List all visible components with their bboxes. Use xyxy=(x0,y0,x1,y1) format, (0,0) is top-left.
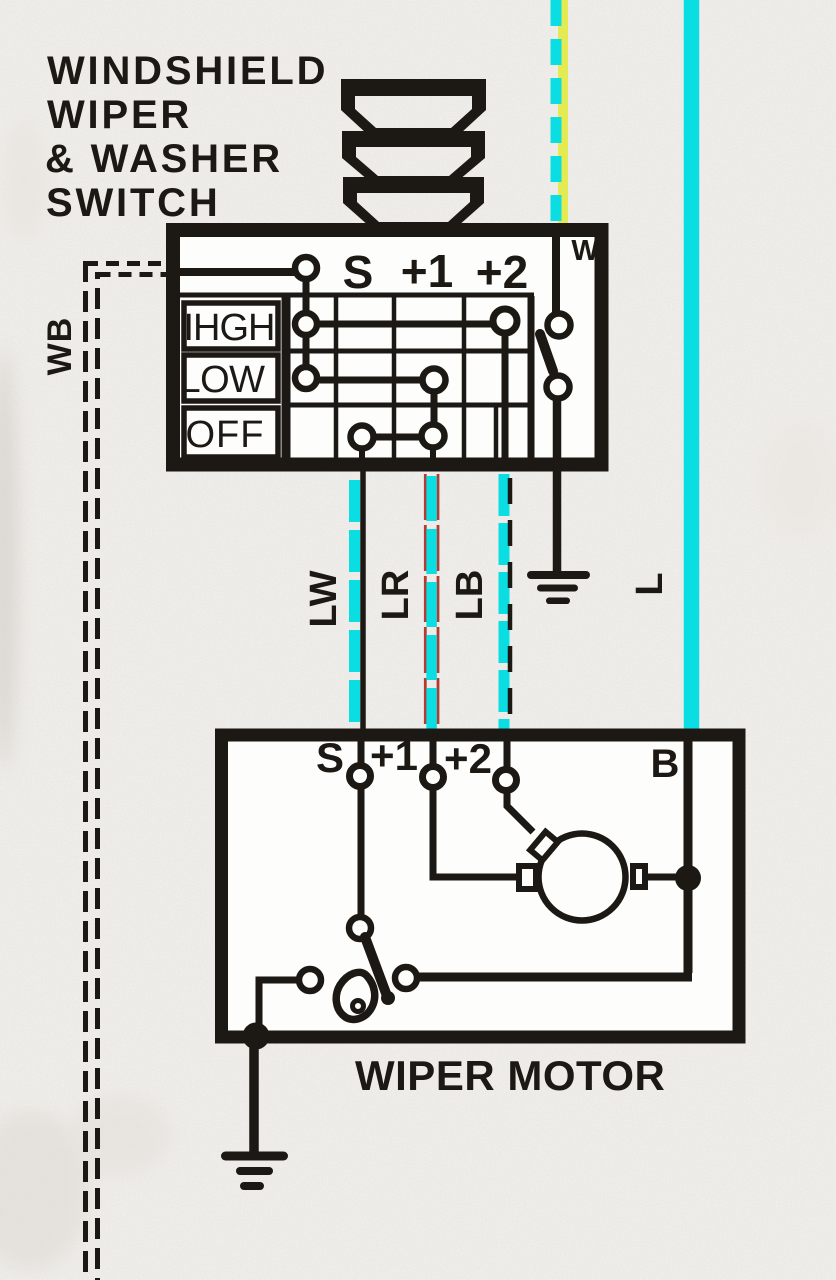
terminal parking earth contact xyxy=(299,969,321,991)
wire LR cyan dashes xyxy=(426,476,437,731)
grid row divider LOW/OFF xyxy=(285,403,534,408)
svg-text:LOW: LOW xyxy=(179,359,265,401)
connector C1 stack shell 1 xyxy=(341,79,486,133)
svg-text:+1: +1 xyxy=(401,245,453,297)
svg-text:+2: +2 xyxy=(444,735,492,782)
wire +1 column down xyxy=(431,391,438,424)
wire right brush to junction xyxy=(647,874,684,881)
terminal LOW +1 xyxy=(423,369,446,392)
svg-text:+2: +2 xyxy=(476,246,528,298)
wire S switch to motor (black) xyxy=(360,458,366,763)
wire LW cyan dashes xyxy=(349,480,360,731)
title text WINDSHIELD WIPER & WASHER SWITCH xyxy=(45,49,328,225)
wire OFF +1 stub down xyxy=(430,447,436,460)
junction dot B/motor xyxy=(675,865,701,891)
grid right vertical xyxy=(528,296,535,458)
svg-text:+1: +1 xyxy=(370,732,418,779)
wire LB cyan dashes xyxy=(499,474,510,730)
wire W colored (yellow with cyan dashes) top feed xyxy=(556,0,568,229)
wire B vertical inside motor box xyxy=(684,741,693,973)
parking switch arm xyxy=(365,937,387,996)
svg-text:B: B xyxy=(651,742,680,786)
brush left xyxy=(519,866,536,889)
wire input from WB to terminal xyxy=(180,268,294,276)
wire L thick cyan at right xyxy=(684,0,700,733)
wire LB black dashes xyxy=(508,478,513,733)
terminal parking A xyxy=(349,917,371,939)
switch grid lines xyxy=(180,295,534,458)
wire link HIGH to LOW xyxy=(303,335,310,367)
svg-text:SWITCH: SWITCH xyxy=(46,181,221,225)
wire LOW row to +1 xyxy=(317,377,423,384)
ground G1 (switch W) xyxy=(527,571,590,604)
wire OFF row S to +1 xyxy=(374,434,422,441)
motor armature circle xyxy=(539,834,626,921)
svg-text:WIPER MOTOR: WIPER MOTOR xyxy=(355,1052,665,1099)
wire +2 to upper brush xyxy=(507,790,533,832)
wire earth contact to box corner xyxy=(259,980,299,1032)
grid thin vertical a xyxy=(334,296,339,458)
wire S down to parking contact xyxy=(358,787,365,915)
wire +2 column down xyxy=(502,333,509,460)
terminal parking B xyxy=(395,967,417,989)
connector C1 stack shell 2 xyxy=(342,131,485,180)
terminal input circle xyxy=(295,257,317,279)
grid thin vertical b xyxy=(392,296,397,458)
motor box M1 outline xyxy=(222,735,740,1037)
terminal +1 motor xyxy=(430,741,437,764)
svg-text:WIPER: WIPER xyxy=(47,93,192,137)
grid row divider HIGH/LOW xyxy=(285,349,534,354)
wire OFF S stub down xyxy=(359,448,365,460)
switch arm W open xyxy=(540,334,553,371)
terminal W upper xyxy=(548,314,571,337)
brush upper-left (rotated) xyxy=(530,832,558,861)
svg-text:S: S xyxy=(343,246,374,298)
svg-text:& WASHER: & WASHER xyxy=(45,137,283,181)
junction dot motor ground xyxy=(243,1023,270,1050)
terminal OFF S xyxy=(351,426,374,449)
wire HIGH row to +2 xyxy=(317,321,492,328)
wire +1 to left brush xyxy=(433,787,517,877)
cam lobe (teardrop with hole) xyxy=(336,972,375,1019)
switch row label cell LOW xyxy=(184,355,278,401)
grid label column divider xyxy=(282,296,291,458)
terminal +2 motor xyxy=(504,741,511,767)
wire W column from top xyxy=(552,237,560,312)
grid thin vertical d xyxy=(494,405,499,458)
wire W column down to ground xyxy=(553,398,562,572)
svg-text:S: S xyxy=(316,734,344,781)
svg-text:LR: LR xyxy=(375,570,417,621)
wire link input to HIGH xyxy=(303,279,310,313)
svg-text:OFF: OFF xyxy=(186,414,265,456)
brush right xyxy=(633,866,645,887)
svg-text:LW: LW xyxy=(303,570,345,627)
connector C1 stack shell 3 xyxy=(343,177,484,226)
grid top line xyxy=(180,293,534,298)
svg-text:W: W xyxy=(571,235,599,267)
terminal LOW common xyxy=(295,367,317,389)
ground G2 (motor) xyxy=(221,1152,288,1191)
terminal W lower xyxy=(547,376,570,399)
svg-text:WB: WB xyxy=(41,317,79,376)
wire motor bottom horizontal to parking switch xyxy=(419,973,692,982)
terminal HIGH common xyxy=(295,313,317,335)
switch row label cell IHGH xyxy=(184,303,278,349)
terminal OFF +1 xyxy=(422,425,445,448)
svg-text:IHGH: IHGH xyxy=(184,307,275,349)
svg-text:L: L xyxy=(629,572,671,595)
svg-text:LB: LB xyxy=(449,570,491,621)
grid thin vertical c xyxy=(462,296,467,458)
terminal S motor xyxy=(358,741,365,763)
wire LR red edges xyxy=(424,474,427,731)
switch box S1 outline xyxy=(173,230,602,465)
wire WB dashed pair (horizontal into switch, vertical down left side) xyxy=(85,261,168,1280)
switch row label cell OFF xyxy=(184,408,278,457)
terminal HIGH +2 xyxy=(493,309,517,333)
svg-text:WINDSHIELD: WINDSHIELD xyxy=(47,49,328,93)
wire motor ground down xyxy=(249,1042,259,1153)
